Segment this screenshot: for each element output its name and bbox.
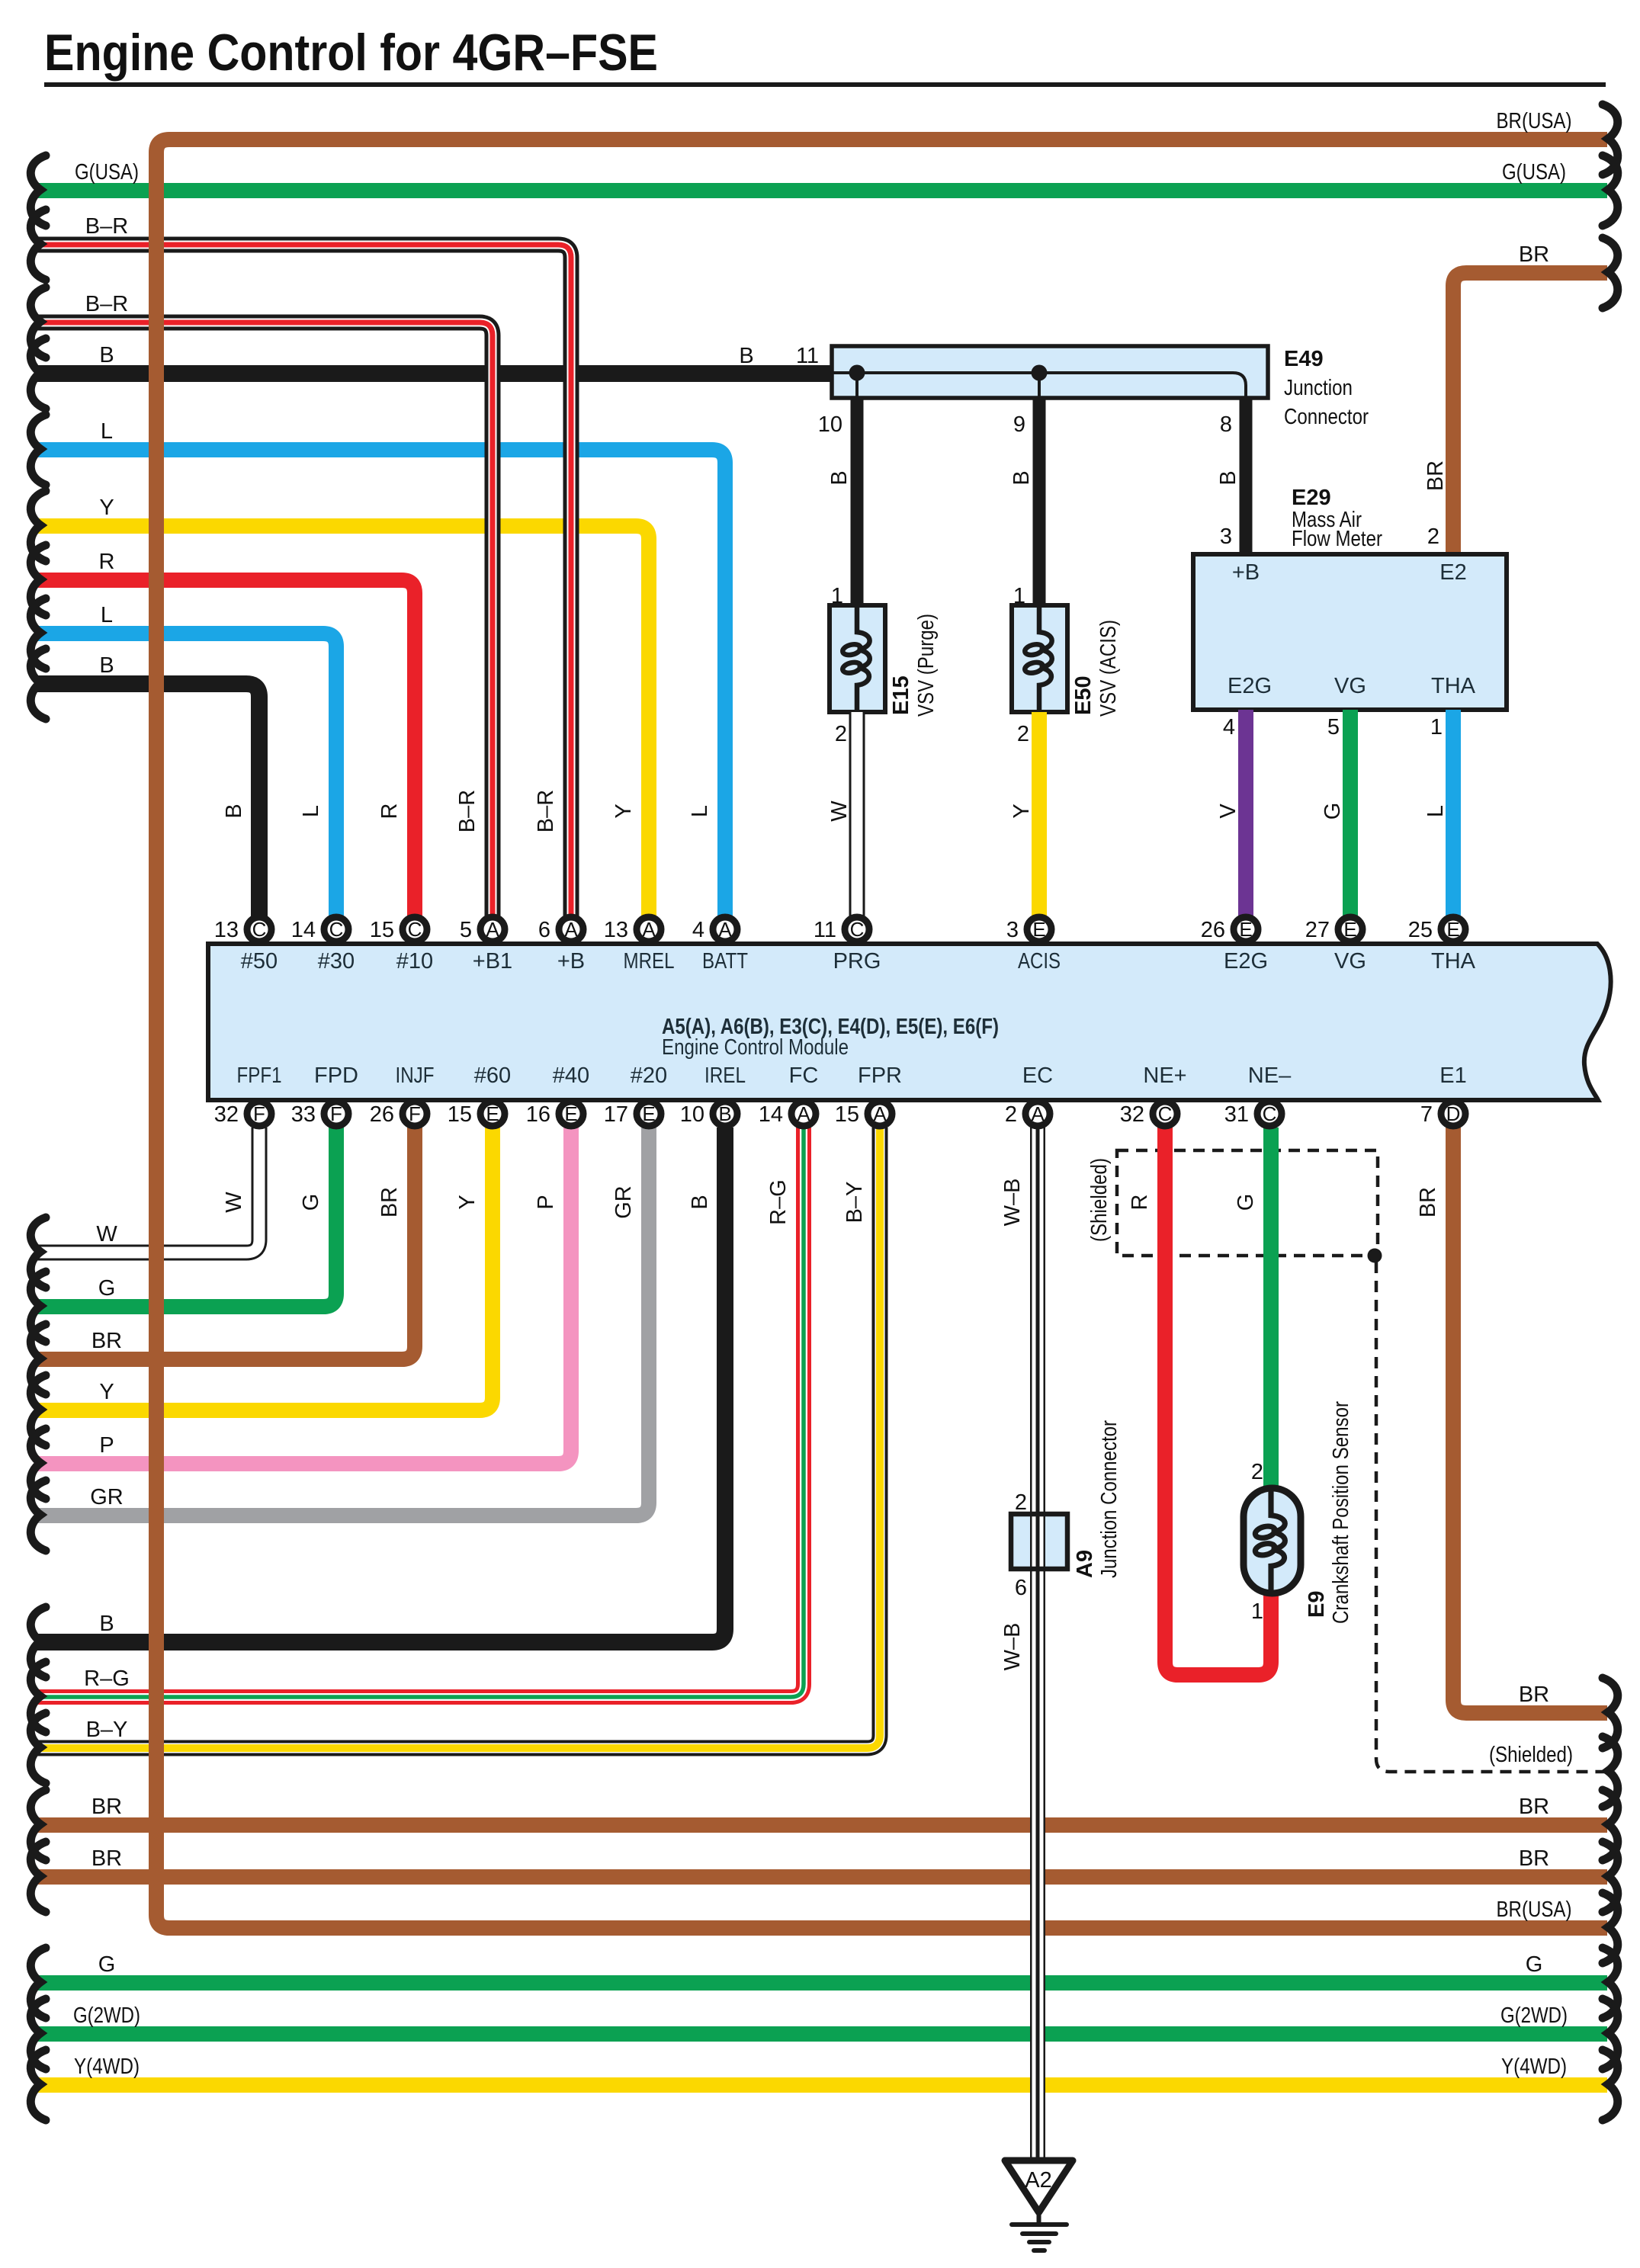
break symbol left y590 [30,415,46,485]
shield box around NE+/NE- wires [1117,1150,1378,1256]
svg-text:3: 3 [1220,524,1232,549]
wire B-Y from FPR [35,1128,880,1748]
ECM bottom pin 17 E #20 [604,1102,661,1127]
svg-text:B: B [1216,470,1240,485]
svg-text:BR: BR [91,1329,122,1353]
wire B E49 pin8 to E29 [1240,398,1253,557]
wire R from NE+ to E9 pin 1 [1165,1128,1271,1675]
junction connector A9 box fill [1011,1514,1067,1569]
wire B E49 pin10 to E15 [851,398,864,608]
svg-text:8: 8 [1220,412,1232,437]
E49 junction dot pin 10 [849,365,865,381]
VSV E15 coil [842,608,870,710]
svg-text:G: G [98,1952,116,1977]
svg-text:4: 4 [1223,715,1235,739]
svg-text:PRG: PRG [833,949,881,974]
svg-text:BR: BR [91,1846,122,1871]
break symbol left y2394 [30,1790,46,1860]
svg-text:EC: EC [1022,1063,1053,1088]
wire R to #10 [35,580,415,917]
ECM bottom pin 7 D E1 [1420,1102,1465,1127]
svg-text:E1: E1 [1439,1063,1466,1088]
svg-text:L: L [688,805,712,817]
ground bar 1 [1012,2222,1067,2227]
wire BR from E1 [1453,1128,1607,1713]
svg-text:Y: Y [455,1195,480,1209]
svg-text:G: G [1526,1952,1543,1977]
ECM bottom pin 32 C NE+ [1120,1102,1177,1127]
svg-text:2: 2 [835,722,847,746]
svg-text:Flow Meter: Flow Meter [1292,527,1382,551]
svg-text:14: 14 [759,1102,783,1127]
svg-text:BR: BR [1519,1846,1549,1871]
break symbol left y2735 [30,2050,46,2120]
svg-text:B: B [688,1195,712,1209]
svg-text:A2: A2 [1025,2168,1051,2193]
svg-text:E: E [564,1102,577,1125]
svg-text:E29: E29 [1292,486,1331,510]
break symbol right y2601 [1603,1948,1618,2018]
break symbol left y2226 [30,1662,46,1732]
svg-text:#50: #50 [241,949,278,974]
svg-text:10: 10 [818,412,842,437]
svg-text:R: R [1128,1195,1152,1211]
wire Y from #60 [35,1128,493,1410]
wire BR bottom row 2 [35,1869,1607,1885]
svg-text:A: A [873,1102,887,1125]
svg-text:VG: VG [1334,949,1366,974]
ECM top pin 11 C PRG [814,917,869,942]
svg-text:2: 2 [1015,1490,1027,1515]
ECM top pin 25 E THA [1408,917,1465,942]
wire Y(4WD) bottom row [35,2077,1607,2093]
svg-text:THA: THA [1431,674,1476,698]
wire Y to MREL [35,526,649,917]
svg-text:E: E [1032,918,1045,941]
ECM bottom pin 14 A FC [759,1102,816,1127]
ground bar 3 [1029,2240,1049,2244]
svg-text:G(USA): G(USA) [75,160,139,184]
svg-text:W: W [222,1192,246,1213]
svg-text:#10: #10 [396,949,433,974]
ground symbol A2 triangle [1005,2161,1073,2212]
break symbol left y2668 [30,1999,46,2069]
svg-text:32: 32 [214,1102,239,1127]
shield drain wire dashed [1376,1262,1607,1772]
svg-text:C: C [329,918,344,941]
svg-text:4: 4 [692,918,704,942]
svg-text:R–G: R–G [84,1667,130,1691]
svg-text:13: 13 [214,918,239,942]
svg-text:E: E [1343,918,1356,941]
ECM top pin 13 C #50 [214,917,271,942]
wire BR(USA) main loop [156,140,1607,1928]
svg-text:A: A [718,918,732,941]
svg-text:Engine Control Module: Engine Control Module [662,1035,849,1060]
svg-text:15: 15 [448,1102,472,1127]
break symbol left y423 [30,287,46,358]
ECM top pin 4 A BATT [692,917,737,942]
svg-text:(Shielded): (Shielded) [1489,1743,1573,1767]
wire W E15 to PRG [849,712,865,917]
wire B to #50 [35,684,259,917]
svg-text:W: W [827,800,852,822]
wire Y E50 to ACIS [1032,712,1047,917]
svg-text:E49: E49 [1284,347,1324,371]
wire B-R to +B [35,245,571,917]
break symbol left y2154 [30,1607,46,1677]
ECM top pin 27 E VG [1305,917,1362,942]
ECM top pin 5 A +B1 [460,917,505,942]
ECM bottom pin 31 C NE– [1224,1102,1282,1127]
wire L to #30 [35,634,336,917]
svg-text:B: B [99,653,114,678]
svg-text:BR: BR [377,1187,402,1217]
wire G(2WD) bottom row [35,2026,1607,2042]
E49 pin9 lead [1038,373,1041,398]
wire B from IREL [35,1128,725,1642]
svg-text:E: E [1239,918,1252,941]
wire BR bottom row 1 [35,1817,1607,1833]
svg-text:G: G [299,1194,323,1211]
ECM bottom pin 15 A FPR [835,1102,892,1127]
svg-text:BR(USA): BR(USA) [1497,1897,1572,1922]
svg-text:G: G [1234,1194,1258,1211]
break symbol left y1988 [30,1480,46,1551]
break symbol right y2735 [1603,2050,1618,2120]
svg-text:A: A [564,918,578,941]
ECM bottom pin 33 F FPD [291,1102,348,1127]
title underline [44,82,1606,87]
ground bar 4 [1034,2248,1045,2253]
svg-text:E: E [642,1102,655,1125]
svg-text:FC: FC [789,1063,819,1088]
svg-text:+B: +B [557,949,585,974]
break symbol right y2668 [1603,1999,1618,2069]
svg-text:3: 3 [1006,918,1019,942]
svg-text:B–R: B–R [85,214,128,239]
svg-text:D: D [1446,1102,1461,1125]
svg-text:Y: Y [1009,804,1034,818]
svg-text:C: C [850,918,865,941]
break symbol right y2324 [1603,1737,1618,1807]
svg-text:B–R: B–R [85,292,128,316]
break symbol left y321 [30,210,46,280]
svg-text:B: B [739,344,753,368]
E9 sensor capsule [1244,1488,1301,1593]
svg-text:A9: A9 [1073,1550,1097,1578]
break symbol left y1783 [30,1324,46,1394]
svg-text:G(2WD): G(2WD) [1500,2003,1568,2028]
svg-text:L: L [299,805,323,817]
ECM A5/A6/E3-E6 box [208,944,1611,1100]
svg-text:R: R [377,804,402,820]
wire V E2G to ECM [1238,710,1253,917]
svg-text:F: F [253,1102,265,1125]
svg-text:G: G [1321,803,1345,820]
svg-text:THA: THA [1431,949,1476,974]
wire BR from INJF [35,1128,415,1359]
svg-text:IREL: IREL [704,1063,746,1088]
break symbol left y2462 [30,1842,46,1912]
wire BR to E29 E2 [1453,273,1607,557]
svg-text:ACIS: ACIS [1018,949,1061,974]
svg-text:B–R: B–R [455,790,480,832]
svg-text:+B1: +B1 [473,949,512,974]
svg-text:NE–: NE– [1248,1063,1292,1088]
svg-text:R: R [99,550,115,574]
svg-text:BR: BR [1423,460,1448,491]
break symbol right y358 [1603,238,1618,308]
svg-text:E: E [486,1102,499,1125]
svg-text:2: 2 [1251,1460,1263,1484]
ECM top pin 15 C #10 [370,917,427,942]
ECM bottom pin 2 A EC [1005,1102,1050,1127]
svg-text:Connector: Connector [1284,405,1369,429]
svg-text:BR: BR [1416,1187,1440,1217]
svg-text:2: 2 [1017,722,1029,746]
svg-text:V: V [1216,804,1240,819]
svg-text:F: F [409,1102,421,1125]
svg-text:C: C [252,918,267,941]
svg-text:G(USA): G(USA) [1502,160,1566,184]
svg-text:13: 13 [604,918,628,942]
svg-text:Y: Y [99,496,114,520]
svg-text:B: B [99,343,114,367]
svg-text:Y(4WD): Y(4WD) [74,2055,140,2079]
ECM top pin 13 A MREL [604,917,661,942]
svg-text:#30: #30 [318,949,355,974]
svg-text:B: B [99,1612,114,1636]
svg-text:B–Y: B–Y [842,1182,867,1224]
junction connector A9 box border [1011,1514,1067,1569]
wire GR from #20 [35,1128,649,1516]
svg-text:Crankshaft Position Sensor: Crankshaft Position Sensor [1329,1401,1353,1624]
svg-text:E9: E9 [1305,1591,1329,1618]
svg-text:25: 25 [1408,918,1433,942]
svg-text:A: A [797,1102,810,1125]
svg-text:27: 27 [1305,918,1330,942]
svg-text:17: 17 [604,1102,628,1127]
VSV E50 box [1012,605,1067,712]
E29 box [1193,554,1507,710]
svg-text:#60: #60 [474,1063,511,1088]
break symbol left y490 [30,338,46,409]
wire W-B from EC to ground [1030,1128,1045,2161]
svg-text:9: 9 [1013,412,1025,437]
svg-text:(Shielded): (Shielded) [1087,1158,1112,1242]
E49 junction dot pin 9 [1032,365,1048,381]
E9 coil [1254,1492,1285,1590]
wire L THA to ECM [1446,710,1461,917]
break symbol left y1920 [30,1429,46,1499]
break symbol left y1850 [30,1375,46,1445]
svg-text:1: 1 [1430,715,1443,739]
svg-text:B: B [1009,470,1034,485]
svg-text:P: P [99,1433,114,1458]
svg-text:E15: E15 [889,675,913,715]
svg-text:MREL: MREL [624,949,675,974]
svg-text:A: A [1031,1102,1045,1125]
ECM bottom pin 15 E #60 [448,1102,505,1127]
svg-text:L: L [101,603,113,627]
svg-text:B: B [827,470,852,485]
svg-text:5: 5 [460,918,472,942]
wire W from FPF1 [35,1128,259,1253]
svg-text:15: 15 [835,1102,859,1127]
svg-text:G(2WD): G(2WD) [73,2003,140,2028]
svg-text:10: 10 [680,1102,704,1127]
svg-text:1: 1 [831,584,843,608]
svg-text:FPD: FPD [314,1063,358,1088]
svg-text:Junction Connector: Junction Connector [1097,1420,1122,1578]
junction connector E49 box [832,346,1268,398]
svg-text:32: 32 [1120,1102,1144,1127]
svg-text:GR: GR [611,1185,636,1219]
break symbol left y761 [30,545,46,615]
svg-text:B–R: B–R [534,790,558,832]
ECM bottom pin 10 B IREL [680,1102,737,1127]
svg-text:E: E [1446,918,1459,941]
svg-text:BR(USA): BR(USA) [1497,109,1572,133]
break symbol left y1643 [30,1217,46,1288]
svg-text:W–B: W–B [1000,1179,1025,1227]
svg-text:BR: BR [1519,1683,1549,1707]
shield junction dot [1368,1249,1382,1263]
E49 pin10 lead [855,373,859,398]
wire P from #40 [35,1128,571,1464]
svg-text:BR: BR [91,1795,122,1819]
ground bar 2 [1022,2231,1056,2236]
break symbol right y2247 [1603,1678,1618,1748]
wire G bottom row [35,1975,1607,1991]
svg-text:#40: #40 [553,1063,589,1088]
break symbol left y1714 [30,1272,46,1342]
svg-text:L: L [1423,805,1448,817]
svg-text:15: 15 [370,918,394,942]
svg-text:C: C [408,918,422,941]
wire B E49 pin9 to E50 [1033,398,1046,608]
svg-text:Junction: Junction [1284,376,1353,400]
svg-text:31: 31 [1224,1102,1249,1127]
svg-text:6: 6 [1015,1576,1027,1600]
wire G from FPD [35,1128,336,1307]
ECM top pin 26 E E2G [1201,917,1258,942]
ground stem [1037,2212,1041,2225]
VSV E15 box [830,605,885,712]
svg-text:P: P [534,1195,558,1209]
ECM bottom pin 32 F FPF1 [214,1102,271,1127]
svg-text:26: 26 [370,1102,394,1127]
svg-text:E50: E50 [1071,675,1096,715]
svg-text:E2G: E2G [1228,674,1272,698]
svg-text:L: L [101,419,113,444]
ECM top pin 14 C #30 [291,917,348,942]
VSV E50 coil [1024,608,1052,710]
svg-text:BR: BR [1519,242,1549,267]
svg-text:16: 16 [526,1102,550,1127]
svg-text:C: C [1158,1102,1173,1125]
svg-text:11: 11 [814,918,836,942]
svg-text:E2: E2 [1439,560,1466,585]
break symbol left y250 [30,156,46,226]
wire G from NE- to E9 pin 2 [1263,1128,1279,1491]
svg-text:33: 33 [291,1102,316,1127]
ECM bottom pin 16 E #40 [526,1102,583,1127]
break symbol left y831 [30,598,46,669]
svg-text:A: A [486,918,499,941]
svg-text:1: 1 [1251,1599,1263,1624]
svg-text:C: C [1263,1102,1277,1125]
svg-text:Y(4WD): Y(4WD) [1501,2055,1567,2079]
svg-text:7: 7 [1420,1102,1433,1127]
ECM top pin 3 E ACIS [1006,917,1051,942]
svg-text:INJF: INJF [396,1063,435,1088]
break symbol left y2293 [30,1713,46,1783]
svg-text:B–Y: B–Y [86,1718,128,1742]
break symbol left y897 [30,649,46,719]
svg-text:FPR: FPR [858,1063,902,1088]
wire G(USA) [35,183,1607,198]
ECM bottom pin 26 F INJF [370,1102,427,1127]
ECM top pin 6 A +B [538,917,583,942]
break symbol right y250 [1603,156,1618,226]
svg-text:11: 11 [796,344,819,368]
wire G VG to ECM [1343,710,1358,917]
wire B to E49 pin 11 [35,365,832,382]
svg-text:VSV (Purge): VSV (Purge) [914,614,939,717]
svg-text:W–B: W–B [1000,1623,1025,1671]
wire B-R to +B1 [35,322,493,917]
svg-text:BATT: BATT [702,949,748,974]
svg-text:14: 14 [291,918,316,942]
svg-text:1: 1 [1013,584,1025,608]
break symbol right y2462 [1603,1842,1618,1912]
E49 internal bus line [832,373,1246,398]
svg-text:G: G [98,1276,116,1301]
svg-text:GR: GR [90,1485,124,1509]
svg-text:+B: +B [1232,560,1260,585]
wire W-B through A9 [1030,1514,1045,1569]
svg-text:A: A [642,918,656,941]
svg-text:2: 2 [1005,1102,1017,1127]
svg-text:F: F [330,1102,342,1125]
svg-text:VG: VG [1334,674,1366,698]
svg-text:Y: Y [99,1380,114,1404]
svg-text:B: B [718,1102,731,1125]
svg-text:E2G: E2G [1224,949,1268,974]
wire L to BATT [35,450,725,917]
svg-text:5: 5 [1327,715,1340,739]
svg-text:NE+: NE+ [1143,1063,1186,1088]
svg-text:BR: BR [1519,1795,1549,1819]
svg-text:#20: #20 [631,1063,667,1088]
svg-text:Y: Y [611,804,636,818]
wire R-G from FC [35,1128,804,1697]
svg-text:B: B [222,804,246,818]
svg-text:6: 6 [538,918,550,942]
break symbol left y2601 [30,1948,46,2018]
break symbol left y690 [30,491,46,561]
svg-text:R–G: R–G [766,1179,791,1225]
svg-text:2: 2 [1427,524,1439,549]
break symbol right y2394 [1603,1790,1618,1860]
svg-text:VSV (ACIS): VSV (ACIS) [1096,620,1121,717]
break symbol right y183 [1603,104,1618,175]
svg-text:FPF1: FPF1 [237,1063,282,1088]
svg-text:26: 26 [1201,918,1225,942]
svg-text:Engine Control for 4GR–FSE: Engine Control for 4GR–FSE [44,24,658,82]
